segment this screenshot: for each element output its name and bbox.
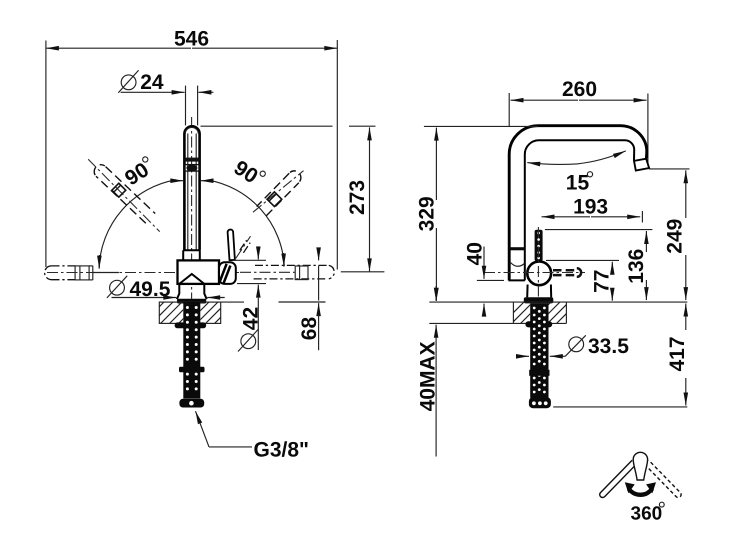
svg-text:77: 77 xyxy=(590,270,613,293)
countertop section (side) xyxy=(502,302,578,324)
spout outline (side) xyxy=(509,126,647,281)
diameter symbol for 24 xyxy=(118,70,138,93)
symbol lever right (dashed) xyxy=(645,460,682,497)
handle alt position centerline (front) xyxy=(236,236,251,258)
svg-text:40MAX: 40MAX xyxy=(417,341,440,411)
tube collar xyxy=(183,250,200,260)
svg-text:33.5: 33.5 xyxy=(588,335,629,358)
dimension 77 line with arrows xyxy=(611,262,613,301)
svg-text:193: 193 xyxy=(573,195,608,218)
symbol handle cone xyxy=(633,452,647,480)
base (side) xyxy=(524,285,554,304)
alt handle position dashes (side) xyxy=(553,268,581,277)
svg-text:260: 260 xyxy=(562,78,597,101)
dimension 329 extension line xyxy=(424,125,538,127)
dimension 329 line with arrows xyxy=(435,128,437,301)
symbol lever left (solid) xyxy=(600,460,637,497)
riser joint details (side) xyxy=(509,247,525,280)
leader G3/8 xyxy=(196,411,253,447)
swivel arc right with arrows xyxy=(201,180,285,267)
body circle (side) xyxy=(527,261,551,285)
handle rod (side) with dots xyxy=(535,230,543,261)
handle lever rod (front) xyxy=(228,230,235,261)
dimension 193 line with arrows xyxy=(542,211,643,223)
label 90 deg right xyxy=(230,156,267,191)
dimension 24 extension lines xyxy=(186,86,198,126)
spout aerator band 1 xyxy=(184,158,199,162)
svg-text:G3/8": G3/8" xyxy=(254,438,309,461)
dimension 49.5 leader arrows xyxy=(112,297,225,299)
horizontal rotated spout right (dashed capsule) xyxy=(254,265,335,279)
countertop section (front) xyxy=(142,302,244,324)
svg-text:68: 68 xyxy=(298,317,321,341)
dimension 68 line with arrows xyxy=(318,248,320,350)
base flange (front) xyxy=(177,299,206,304)
text 360 deg xyxy=(631,502,665,524)
svg-text:273: 273 xyxy=(346,180,369,215)
dimension 546 extension line left xyxy=(45,41,47,268)
svg-text:40: 40 xyxy=(464,242,487,265)
dimension 40MAX xyxy=(435,286,437,457)
dimension 68 reference line xyxy=(279,301,326,303)
svg-text:546: 546 xyxy=(174,27,209,50)
deck line (side) xyxy=(429,301,687,303)
svg-text:360: 360 xyxy=(631,503,663,524)
dimension 546 line with arrows xyxy=(46,47,337,49)
label 90 deg left xyxy=(121,155,158,190)
counter bottom line (side) xyxy=(429,322,566,324)
horizontal rotated spout left (dashed capsule) xyxy=(45,266,93,280)
arc 15 degrees xyxy=(527,151,626,165)
dimension 417 reference line bottom xyxy=(553,406,687,408)
horizontal centerline (side) xyxy=(484,272,585,274)
dimension 42 reference lines xyxy=(234,260,266,283)
vertical centerline (side) xyxy=(537,227,539,303)
faucet body block (front) xyxy=(178,260,236,284)
dimension 249 reference line xyxy=(649,168,690,170)
symbol rotation arrow xyxy=(625,482,656,495)
horizontal centerline through body and capsules xyxy=(47,271,384,274)
threaded shank and hose (front) xyxy=(175,302,207,408)
svg-text:136: 136 xyxy=(625,249,648,284)
dimension 546 extension line right xyxy=(336,40,338,270)
dimension 249 line with arrows xyxy=(685,170,687,300)
dimension 40 (riser bottom to deck) xyxy=(477,247,504,314)
dimension 260 line with arrows xyxy=(509,93,648,167)
diameter symbol 42 (rotated) xyxy=(238,329,259,352)
text 15 deg xyxy=(566,172,593,195)
dimension 24 leader and arrows xyxy=(121,91,214,93)
svg-text:417: 417 xyxy=(666,336,689,371)
svg-text:42: 42 xyxy=(239,307,262,330)
diameter symbol 49.5 xyxy=(107,276,127,298)
spout tube (front) xyxy=(184,126,199,250)
swivel arc left with arrows xyxy=(99,180,183,269)
spout nozzle (side) xyxy=(634,159,649,171)
dimension 33.5 leader xyxy=(518,335,586,356)
svg-text:249: 249 xyxy=(664,219,687,254)
reference line 77 top (body top) xyxy=(546,259,619,261)
dimension 273 line with arrows xyxy=(369,127,371,271)
svg-text:15: 15 xyxy=(566,172,590,195)
dimension 273 extension line top xyxy=(201,125,376,127)
spout aerator band 2 with dot xyxy=(185,165,199,172)
svg-text:329: 329 xyxy=(416,196,439,231)
svg-text:24: 24 xyxy=(140,71,164,94)
dimension 417 line with arrows xyxy=(685,304,687,406)
dimension 136 line with arrows xyxy=(645,231,647,300)
diameter symbol 33.5 xyxy=(569,337,584,352)
nut and hose (side) xyxy=(525,303,552,408)
base cone with chevron (front) xyxy=(177,274,207,299)
reference line 136 top (handle top) xyxy=(545,229,653,231)
dimension 42 line with arrows xyxy=(257,246,259,350)
rotated spout 45deg left (dashed) xyxy=(88,159,160,231)
rotated spout 45deg right (dashed) xyxy=(253,171,304,216)
spout tube vertical centerline xyxy=(191,117,193,302)
